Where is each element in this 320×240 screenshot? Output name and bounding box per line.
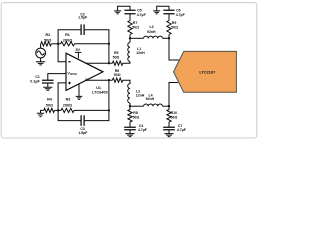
capacitor C5 4.7µF [124, 10, 135, 14]
wire to non-inverting input [58, 83, 66, 111]
wire R3 to bottom riser [74, 109, 109, 111]
svg-text:C1: C1 [35, 75, 40, 79]
svg-text:1.5pF: 1.5pF [78, 131, 88, 135]
node: -OUT feedback tap [108, 79, 110, 81]
wire -OUT [87, 79, 113, 81]
node: bottom summing junction [57, 109, 59, 111]
svg-text:92nH: 92nH [146, 97, 155, 101]
svg-text:50Ω: 50Ω [46, 103, 53, 107]
svg-text:R7: R7 [133, 21, 138, 25]
svg-text:C6: C6 [176, 8, 181, 12]
wire node to L4 [130, 105, 144, 107]
inductor L4 92nH [144, 104, 163, 106]
svg-text:50Ω: 50Ω [171, 116, 178, 120]
wire R5 to L1 [123, 62, 130, 64]
svg-text:50Ω: 50Ω [114, 73, 121, 77]
svg-text:50Ω: 50Ω [44, 38, 51, 42]
ground (R4 input) [41, 110, 44, 113]
ground (C6) [153, 11, 160, 14]
svg-text:4.7µF: 4.7µF [177, 128, 187, 132]
inductor L1 12nH [128, 43, 130, 62]
svg-text:200Ω: 200Ω [63, 38, 72, 42]
node: top summing junction [57, 43, 59, 45]
svg-text:200Ω: 200Ω [63, 103, 72, 107]
wire R1 to top output riser [75, 43, 109, 45]
resistor R4 50Ω [44, 108, 55, 112]
svg-text:12nH: 12nH [136, 51, 145, 55]
svg-text:R5: R5 [114, 51, 119, 55]
svg-text:1.5pF: 1.5pF [78, 16, 88, 20]
resistor R2 50Ω [41, 42, 52, 46]
wire to inverting input [58, 44, 66, 62]
wire riser up to -OUT row [108, 80, 110, 110]
ground (op-amp V-) [78, 84, 80, 96]
svg-text:R10: R10 [171, 111, 177, 115]
resistor R9 50Ω [167, 21, 171, 35]
resistor R10 50Ω [167, 110, 171, 123]
node: L2/R8/L4 [129, 105, 131, 107]
wire riser down to +OUT row [108, 44, 110, 63]
wire R6 to L2 [123, 80, 130, 84]
svg-text:50Ω: 50Ω [113, 55, 120, 59]
svg-text:0.1µF: 0.1µF [30, 80, 40, 84]
svg-text:R2: R2 [45, 33, 50, 37]
svg-text:LTC6409: LTC6409 [92, 90, 108, 94]
svg-text:50Ω: 50Ω [171, 26, 178, 30]
op-amp U1 LTC6409 [66, 53, 103, 90]
resistor R5 50Ω [112, 61, 122, 65]
capacitor C6 4.7µF [163, 10, 174, 14]
svg-text:12nH: 12nH [136, 93, 145, 97]
ground (C1) [43, 87, 52, 90]
node: L1/R7/L3 [129, 37, 131, 39]
AC source V1 [36, 48, 46, 58]
svg-text:5V: 5V [76, 48, 81, 52]
node: R1/C2 riser top [108, 43, 110, 45]
wire to ADC AIN- [169, 83, 178, 107]
wire +OUT [85, 62, 112, 64]
ground (C5) [114, 11, 121, 14]
svg-text:LTC2107: LTC2107 [199, 69, 215, 74]
svg-text:R9: R9 [172, 21, 177, 25]
wire R2 to summing node [51, 43, 60, 45]
svg-text:C5: C5 [137, 8, 142, 12]
svg-text:50Ω: 50Ω [133, 116, 140, 120]
ground (below source) [36, 62, 45, 65]
svg-text:4.7µF: 4.7µF [176, 13, 186, 17]
capacitor C1 0.1µF (VOCM bypass) [48, 74, 66, 81]
node: R3/C3 riser bottom [108, 109, 110, 111]
svg-text:R1: R1 [65, 33, 70, 37]
wire node to L3 [130, 37, 144, 39]
capacitor C7 4.7µF [168, 122, 170, 127]
svg-text:92nH: 92nH [147, 30, 156, 34]
ground (C4) [125, 134, 134, 137]
node: +OUT feedback tap [108, 62, 110, 64]
wire to ADC AIN+ [169, 38, 180, 60]
resistor R3 200Ω [61, 108, 74, 112]
svg-text:50Ω: 50Ω [132, 26, 139, 30]
resistor R1 200Ω [61, 42, 75, 46]
capacitor C3 1.5pF (bottom feedback) [58, 110, 81, 120]
capacitor C4 4.7µF [129, 122, 131, 127]
svg-text:4.7µF: 4.7µF [138, 128, 148, 132]
wire L3 to node [163, 37, 170, 39]
svg-text:R8: R8 [133, 111, 138, 115]
svg-text:R3: R3 [66, 98, 71, 102]
wire L4 to node [163, 105, 170, 107]
node: R10/L4/ADC [168, 105, 170, 107]
resistor R8 50Ω [128, 110, 132, 123]
inductor L3 92nH [144, 36, 163, 38]
node: R9/L3/ADC [168, 37, 170, 39]
resistor R7 50Ω [128, 21, 132, 35]
resistor R6 50Ω [112, 78, 122, 82]
svg-text:4.7µF: 4.7µF [137, 13, 147, 17]
ground (C7) [164, 134, 173, 137]
svg-text:VOCM: VOCM [67, 71, 77, 76]
svg-text:L3: L3 [150, 25, 154, 29]
capacitor C2 1.5pF (top feedback) [58, 30, 81, 44]
ADC U2 LTC2107 [174, 51, 237, 92]
inductor L2 12nH [128, 84, 130, 103]
